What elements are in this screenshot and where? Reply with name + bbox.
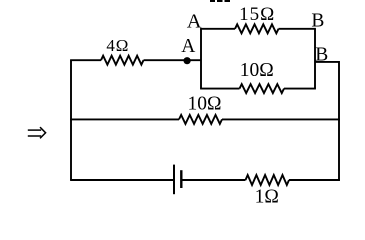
svg-text:A: A	[181, 36, 195, 57]
cut-off text marks at top (bottom of cropped line)	[210, 0, 230, 2]
svg-text:B: B	[311, 10, 324, 31]
arrow => (implication arrow at left)	[28, 127, 46, 138]
wire: top branch left of 4ohm	[70, 59, 101, 61]
svg-text:1Ω: 1Ω	[255, 187, 279, 208]
node A junction dot	[184, 57, 191, 64]
wire: box top branch left lead	[200, 28, 235, 30]
wire: middle branch left segment	[70, 118, 179, 120]
wire: box right bar	[314, 29, 316, 89]
resistor 4ohm	[101, 56, 144, 65]
wire: left vertical	[70, 60, 72, 180]
wire: output from B to right vertical	[315, 62, 339, 181]
battery long plate	[173, 165, 175, 195]
wire: bottom branch between battery and 1ohm	[181, 179, 245, 181]
resistor 1ohm	[246, 175, 290, 185]
resistor 10ohm (middle branch)	[179, 115, 222, 124]
wire: box bottom branch left lead	[200, 88, 239, 90]
battery short plate	[180, 170, 182, 188]
wire: middle branch right segment	[222, 118, 340, 120]
wire: bottom branch left segment	[70, 179, 174, 181]
wire: bottom branch right segment	[289, 179, 340, 181]
svg-text:A: A	[187, 11, 202, 33]
svg-text:15Ω: 15Ω	[239, 4, 275, 25]
resistor 15ohm	[235, 24, 279, 33]
svg-text:10Ω: 10Ω	[240, 60, 274, 81]
svg-text:10Ω: 10Ω	[188, 94, 222, 115]
wire: box left bar	[200, 29, 202, 89]
svg-text:4Ω: 4Ω	[106, 36, 129, 55]
resistor 10ohm (in box)	[240, 84, 285, 93]
wire: box bottom branch right lead	[284, 88, 316, 90]
wire: top branch from 4ohm to node A and box	[144, 59, 202, 61]
wire: box top branch right lead	[279, 28, 316, 30]
